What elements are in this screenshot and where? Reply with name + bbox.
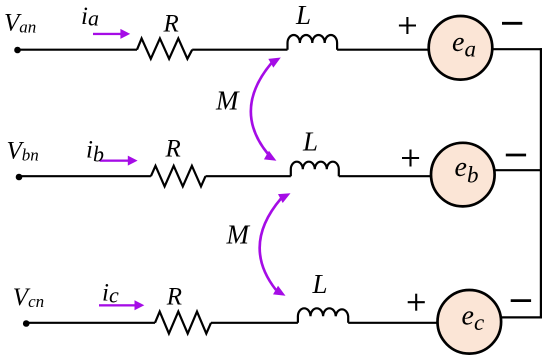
source ea (circle) — [429, 16, 493, 80]
resistor R row c — [155, 312, 211, 334]
current arrow ib — [100, 156, 138, 166]
resistor R row b — [151, 166, 206, 187]
wire row a: node to resistor — [18, 49, 138, 51]
inductor L row c — [298, 308, 348, 323]
wire row a: resistor to inductor — [192, 49, 287, 51]
current arrow ic — [99, 300, 144, 310]
source eb (circle) — [431, 143, 495, 207]
svg-text:L: L — [312, 269, 328, 299]
svg-text:L: L — [295, 0, 311, 30]
wire row b: node to resistor — [19, 175, 151, 177]
mutual inductance arrow M (rows a-b) — [251, 53, 283, 165]
svg-text:L: L — [302, 127, 318, 157]
wire row a: source to right bus — [492, 48, 542, 50]
svg-text:R: R — [166, 284, 182, 311]
svg-text:R: R — [163, 11, 179, 38]
inductor L row a — [288, 35, 338, 50]
resistor R row a — [137, 38, 192, 58]
plus polarity row b — [402, 150, 419, 167]
current arrow ia — [93, 29, 130, 39]
node Vbn (terminal dot) — [16, 174, 23, 181]
svg-text:R: R — [165, 136, 181, 163]
minus polarity row c — [511, 299, 531, 302]
wire row b: source to right bus — [495, 169, 542, 171]
svg-text:ic: ic — [102, 280, 119, 308]
wire right bus (vertical) — [540, 48, 542, 318]
wire row b: inductor to source — [339, 175, 432, 177]
svg-text:M: M — [226, 219, 251, 249]
plus polarity row c — [408, 294, 425, 311]
wire row c: node to resistor — [26, 322, 155, 324]
source ec (circle) — [438, 290, 502, 354]
minus polarity row b — [506, 154, 526, 157]
svg-text:M: M — [215, 86, 240, 116]
svg-text:ib: ib — [86, 136, 104, 166]
wire row b: resistor to inductor — [206, 175, 291, 177]
node Vcn (terminal dot) — [23, 320, 30, 327]
wire row c: inductor to source — [348, 322, 438, 324]
wire row c: resistor to inductor — [211, 322, 298, 324]
node Van (terminal dot) — [14, 47, 21, 54]
mutual inductance arrow M (rows b-c) — [260, 189, 293, 300]
svg-text:ia: ia — [81, 3, 99, 31]
minus polarity row a — [502, 22, 522, 25]
inductor L row b — [291, 162, 339, 176]
plus polarity row a — [399, 17, 416, 34]
wire row a: inductor to source — [337, 49, 429, 51]
wire row c: source to right bus — [501, 316, 542, 318]
